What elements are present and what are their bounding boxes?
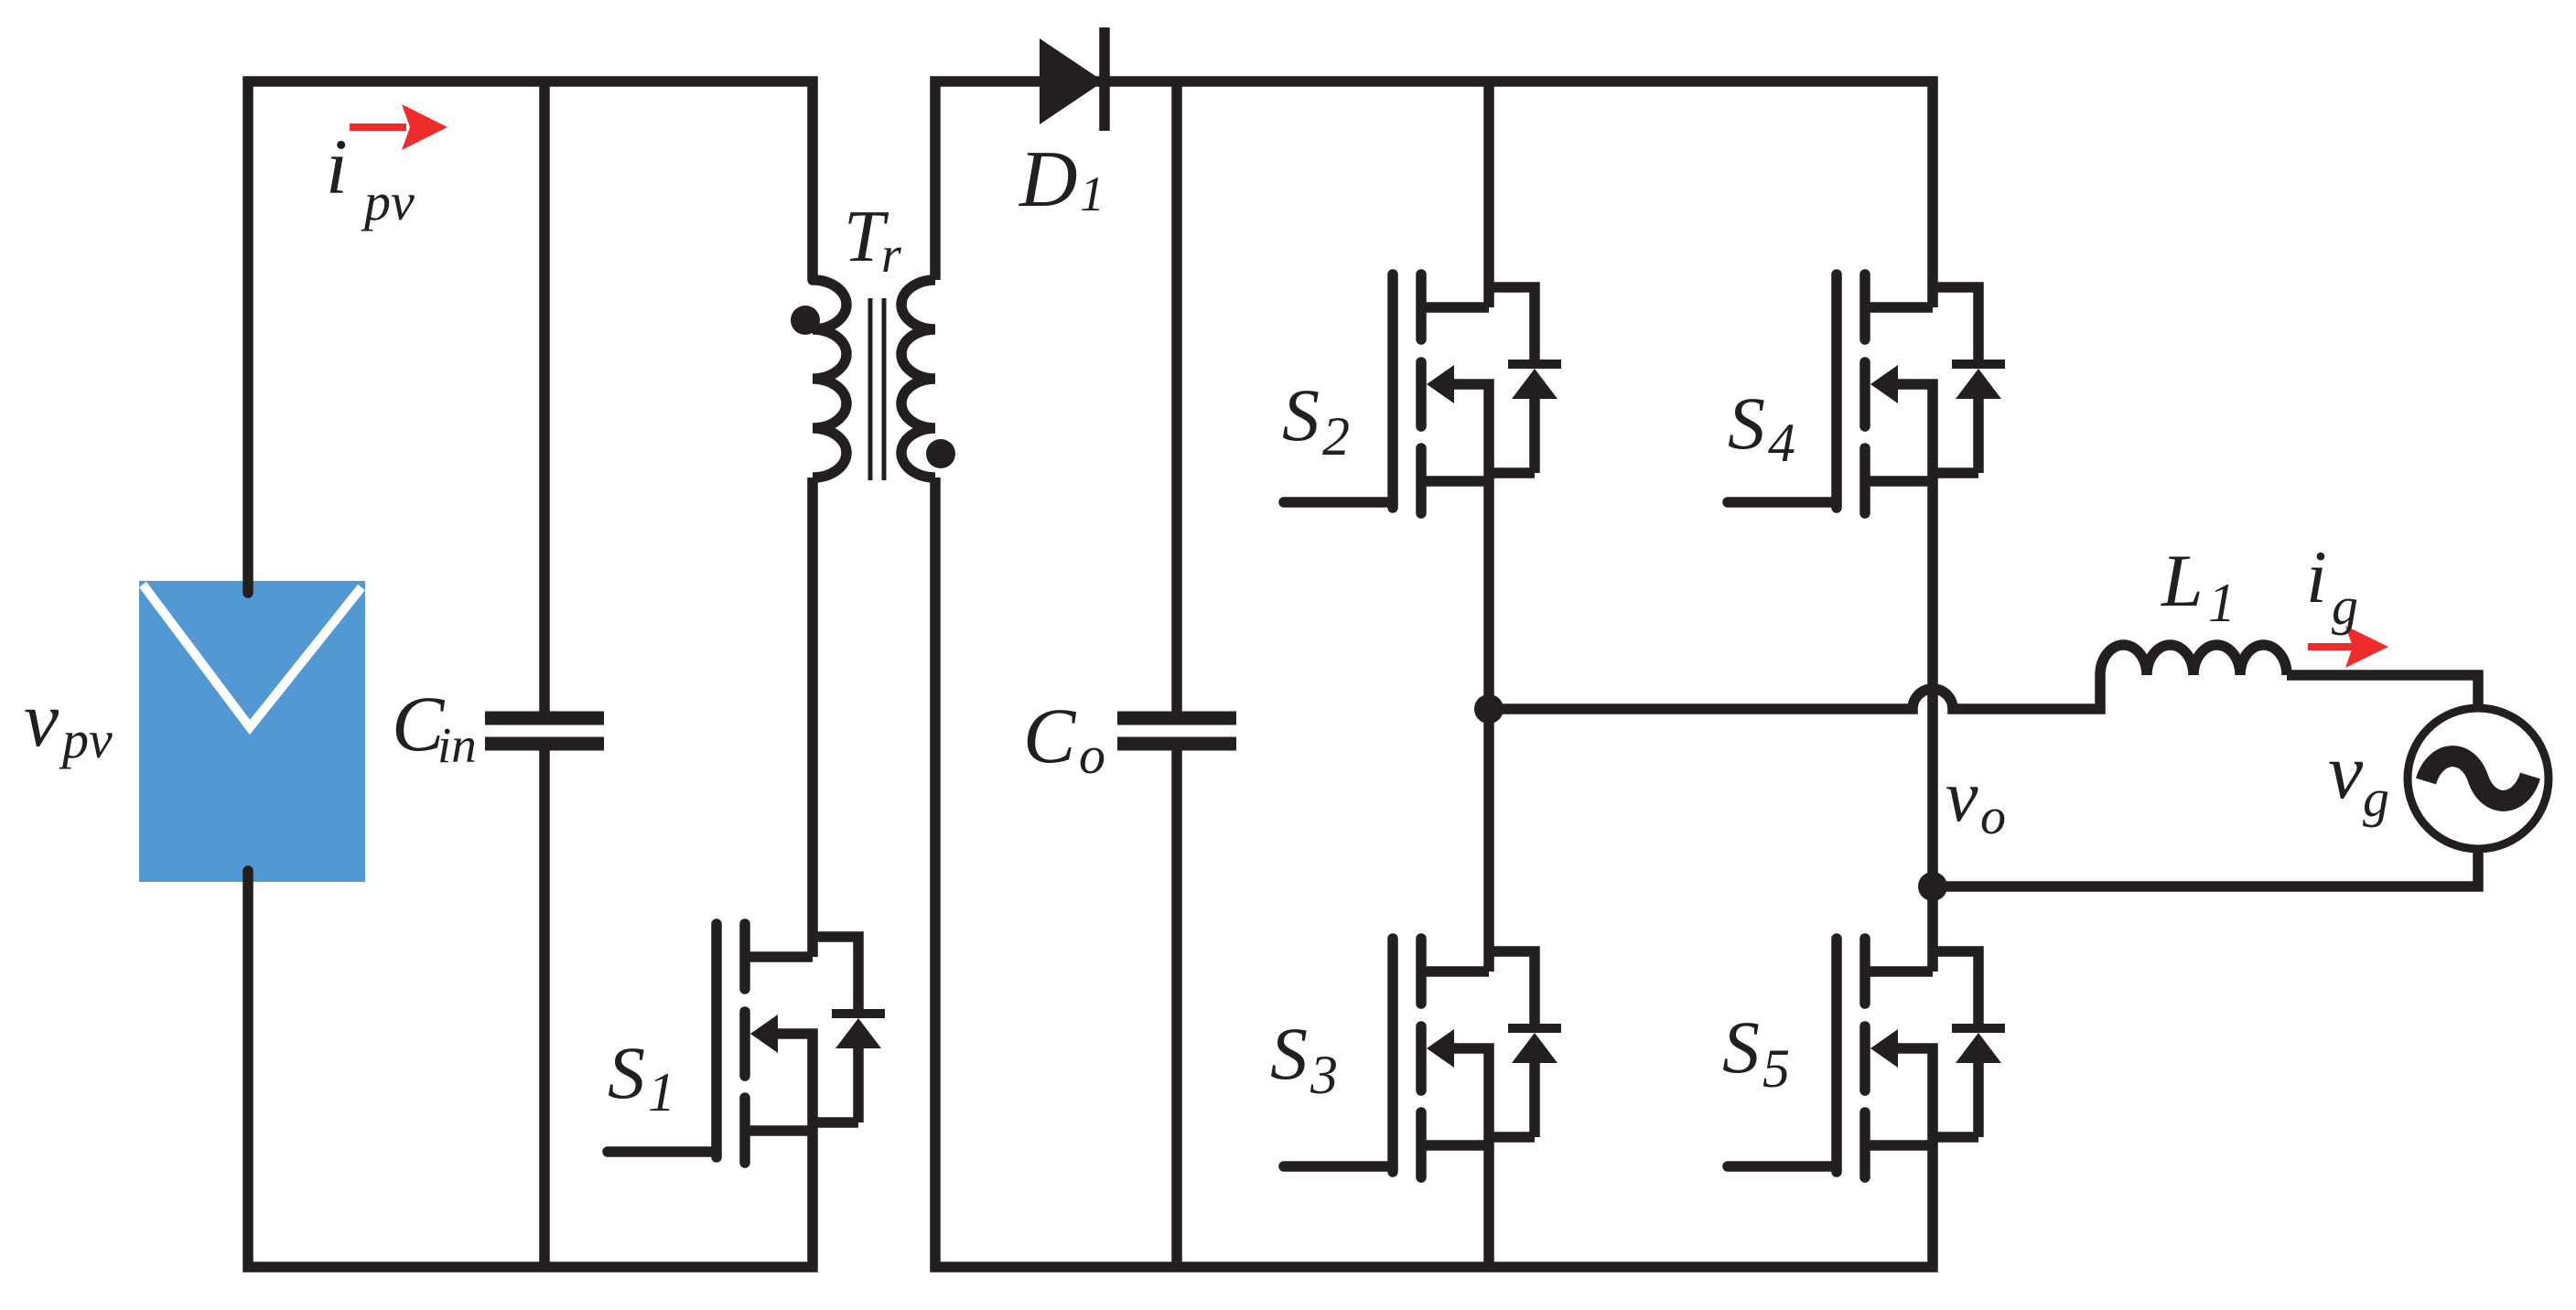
svg-text:S: S (1270, 1012, 1308, 1095)
wire: L1 to grid source top lead (2287, 675, 2478, 708)
wire: S3 source riser (1483, 1145, 1494, 1267)
wire: Cin branch upper (539, 81, 550, 713)
wire: Cin branch lower (539, 749, 550, 1267)
svg-text:5: 5 (1762, 1038, 1790, 1099)
PV panel (solar cell source) (139, 581, 365, 882)
svg-text:3: 3 (1310, 1045, 1338, 1105)
current arrow ipv (350, 104, 447, 150)
svg-text:o: o (1079, 725, 1105, 785)
svg-text:1: 1 (2208, 573, 2236, 633)
wire: bridge mid rail with crossover hop and inductor risers (1489, 675, 2100, 709)
svg-text:r: r (881, 227, 901, 284)
transistor S3 (MOSFET with body diode) (1284, 939, 1561, 1177)
wire: PV negative lead, primary bottom rail, S1 source riser (248, 871, 813, 1267)
inductor L1 (2100, 645, 2287, 675)
svg-text:C: C (1023, 692, 1077, 779)
transformer Tr primary winding (813, 280, 846, 478)
svg-text:1: 1 (648, 1062, 675, 1122)
svg-text:L: L (2161, 539, 2204, 622)
svg-text:pv: pv (59, 710, 113, 769)
capacitor Cin (485, 718, 604, 744)
svg-text:S: S (1282, 373, 1320, 456)
wire: PV positive lead, primary top rail, transformer primary top lead (248, 81, 813, 593)
wire: S2 source to S3 drain (left bridge leg) (1483, 481, 1494, 972)
svg-text:i: i (326, 123, 348, 210)
wire: grid source bottom lead and return to node vo (1933, 849, 2478, 886)
transistor S1 (MOSFET with body diode) (608, 924, 885, 1163)
svg-text:S: S (608, 1031, 645, 1114)
current arrow ig (2308, 626, 2388, 668)
transistor S4 (MOSFET with body diode) (1728, 274, 2005, 513)
transformer Tr secondary winding (901, 280, 935, 478)
svg-text:i: i (2306, 535, 2327, 618)
svg-text:in: in (437, 717, 477, 773)
svg-text:S: S (1728, 381, 1765, 465)
transformer primary polarity dot (791, 306, 820, 335)
wire: transformer secondary bottom lead, secondary bottom rail, S5 source riser (935, 478, 1933, 1267)
transistor S5 (MOSFET with body diode) (1728, 939, 2005, 1177)
AC source vg (2408, 708, 2549, 849)
svg-text:pv: pv (361, 172, 415, 231)
node vo (S4-S5 junction) (1918, 872, 1947, 901)
svg-text:1: 1 (1080, 166, 1105, 221)
svg-text:2: 2 (1322, 406, 1350, 467)
svg-text:g: g (2332, 576, 2358, 636)
wire: Co branch lower (1171, 749, 1182, 1267)
transistor S2 (MOSFET with body diode) (1284, 274, 1561, 513)
transformer Tr core (870, 298, 884, 480)
diode D1 (1040, 27, 1105, 131)
svg-text:v: v (1945, 757, 1978, 837)
svg-text:v: v (24, 675, 59, 763)
svg-text:S: S (1722, 1005, 1760, 1089)
svg-text:g: g (2363, 768, 2389, 828)
node: S2-S3 junction (1474, 694, 1504, 724)
transformer secondary polarity dot (926, 439, 955, 468)
wire: transformer secondary top lead, secondary top rail, S4 drain riser (935, 81, 1933, 307)
wire: S4 source to S5 drain (right bridge leg) (1927, 481, 1938, 972)
capacitor Co (1117, 718, 1236, 744)
wire: S2 drain riser (1483, 81, 1494, 307)
svg-text:v: v (2328, 727, 2364, 815)
svg-text:o: o (1980, 789, 2006, 845)
wire: transformer primary bottom to S1 drain (807, 478, 818, 957)
wire: Co branch upper (1171, 81, 1182, 713)
svg-text:4: 4 (1768, 413, 1795, 473)
svg-text:D: D (1019, 135, 1078, 224)
